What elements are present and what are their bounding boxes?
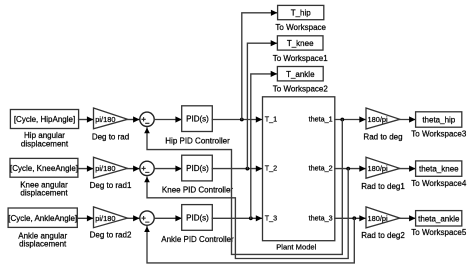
svg-text:pi/180: pi/180 — [95, 115, 115, 124]
svg-text:T_hip: T_hip — [291, 9, 312, 18]
wire branch up to T_hip — [242, 13, 277, 120]
junction dot theta_1 feedback — [340, 118, 344, 122]
svg-text:Rad to deg2: Rad to deg2 — [361, 231, 405, 240]
wire source to gain (ankle) — [77, 217, 92, 219]
wire out gain to theta_hip — [400, 119, 415, 121]
svg-text:180/pi: 180/pi — [368, 214, 388, 223]
label Knee angular displacement — [20, 181, 68, 198]
svg-text:T_ankle: T_ankle — [286, 70, 315, 79]
svg-text:PID(s): PID(s) — [186, 164, 209, 173]
svg-text:T_3: T_3 — [265, 213, 277, 222]
svg-text:180/pi: 180/pi — [368, 164, 388, 173]
To Workspace block theta_ankle — [416, 211, 462, 226]
svg-text:pi/180: pi/180 — [95, 164, 115, 173]
svg-text:To Workspace1: To Workspace1 — [273, 54, 329, 63]
gain G1 pi/180 — [94, 108, 128, 129]
wire knee feedback loop — [147, 169, 348, 259]
svg-text:180/pi: 180/pi — [368, 115, 388, 124]
junction dot torque branch (hip) — [240, 118, 244, 122]
sum junction S3 (ankle) — [140, 211, 154, 225]
junction dot theta_3 feedback — [352, 216, 356, 220]
svg-text:Hip PID Controller: Hip PID Controller — [165, 136, 230, 145]
svg-text:Plant Model: Plant Model — [276, 243, 316, 252]
svg-text:Deg to rad1: Deg to rad1 — [90, 181, 132, 190]
gain G4 180/pi — [366, 108, 400, 129]
source block [Cycle, KneeAngle] — [10, 158, 78, 177]
svg-text:theta_ankle: theta_ankle — [418, 214, 460, 223]
To Workspace block theta_knee — [416, 161, 462, 176]
svg-text:Rad to deg1: Rad to deg1 — [361, 182, 405, 191]
label Ankle angular displacement — [18, 231, 67, 248]
wire branch up to T_knee — [247, 43, 276, 168]
wire theta_3 to out gain — [335, 217, 365, 219]
svg-text:Rad to deg: Rad to deg — [363, 132, 402, 141]
svg-text:pi/180: pi/180 — [95, 214, 115, 223]
wire sum to PID (ankle) — [154, 217, 181, 219]
junction dot torque branch (knee) — [246, 167, 250, 171]
svg-text:[Cycle, AnkleAngle]: [Cycle, AnkleAngle] — [8, 214, 77, 223]
gain G3 pi/180 — [94, 207, 128, 228]
svg-text:displacement: displacement — [21, 139, 69, 148]
wire PID to plant T_2 — [212, 168, 261, 170]
sum junction S1 (hip) — [140, 112, 154, 126]
svg-text:Ankle PID Controller: Ankle PID Controller — [161, 235, 234, 244]
wire ankle feedback loop — [147, 218, 354, 263]
wire hip feedback loop — [147, 120, 342, 255]
svg-text:To Workspace3: To Workspace3 — [411, 129, 467, 138]
svg-text:theta_3: theta_3 — [309, 213, 333, 222]
plant model block — [263, 97, 335, 241]
PID controller block U3 — [182, 205, 213, 231]
wire sum to PID (knee) — [154, 168, 181, 170]
svg-text:theta_1: theta_1 — [309, 115, 333, 124]
label Hip angular displacement — [21, 131, 69, 148]
svg-text:To Workspace5: To Workspace5 — [411, 228, 467, 237]
wire PID to plant T_3 — [212, 217, 261, 219]
To Workspace block T_knee — [277, 36, 323, 50]
svg-text:Deg to rad: Deg to rad — [92, 132, 129, 141]
source block [Cycle, AnkleAngle] — [8, 208, 77, 227]
svg-text:theta_hip: theta_hip — [422, 116, 455, 125]
PID controller block U1 — [182, 106, 213, 132]
svg-text:Deg to rad2: Deg to rad2 — [90, 231, 132, 240]
junction dot torque branch (ankle) — [249, 216, 253, 220]
gain G6 180/pi — [366, 207, 400, 228]
wire gain to sum (knee) — [128, 168, 139, 170]
svg-text:PID(s): PID(s) — [186, 115, 209, 124]
svg-text:PID(s): PID(s) — [186, 214, 209, 223]
svg-text:[Cycle, KneeAngle]: [Cycle, KneeAngle] — [10, 164, 78, 173]
wire PID to plant T_1 — [212, 119, 261, 121]
wire theta_1 to out gain — [335, 119, 365, 121]
svg-text:T_2: T_2 — [265, 164, 277, 173]
source block [Cycle, HipAngle] — [10, 110, 78, 129]
wire sum to PID (hip) — [154, 119, 181, 121]
wire theta_2 to out gain — [335, 168, 365, 170]
svg-text:displacement: displacement — [20, 189, 68, 198]
gain G2 pi/180 — [94, 157, 128, 178]
wire out gain to theta_ankle — [400, 217, 415, 219]
wire gain to sum (ankle) — [128, 217, 139, 219]
To Workspace block T_hip — [278, 5, 324, 19]
To Workspace block theta_hip — [416, 112, 462, 127]
svg-text:[Cycle, HipAngle]: [Cycle, HipAngle] — [14, 115, 75, 124]
svg-text:T_1: T_1 — [265, 115, 277, 124]
To Workspace block T_ankle — [277, 67, 323, 81]
svg-text:displacement: displacement — [19, 240, 67, 249]
svg-text:To Workspace: To Workspace — [275, 23, 326, 32]
wire gain to sum (hip) — [128, 119, 139, 121]
svg-text:theta_2: theta_2 — [309, 164, 333, 173]
svg-text:Knee PID Controller: Knee PID Controller — [162, 185, 233, 194]
junction dot theta_2 feedback — [346, 167, 350, 171]
sum junction S2 (knee) — [140, 161, 154, 175]
wire branch up to T_ankle — [251, 74, 277, 218]
PID controller block U2 — [182, 155, 213, 181]
wire source to gain (hip) — [79, 119, 93, 121]
gain G5 180/pi — [366, 157, 400, 178]
wire out gain to theta_knee — [400, 168, 415, 170]
svg-text:To Workspace2: To Workspace2 — [273, 84, 329, 93]
svg-text:To Workspace4: To Workspace4 — [411, 179, 467, 188]
wire source to gain (knee) — [78, 168, 93, 170]
svg-text:T_knee: T_knee — [287, 39, 314, 48]
svg-text:theta_knee: theta_knee — [419, 165, 459, 174]
